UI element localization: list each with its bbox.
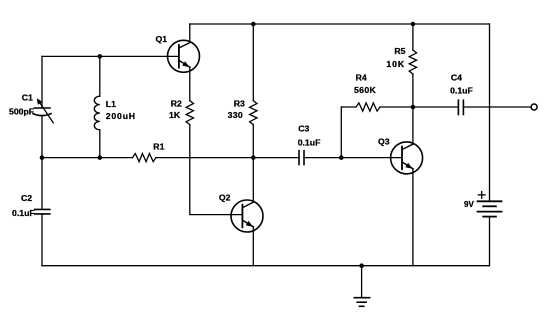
wire L1 bottom lead xyxy=(99,130,101,158)
svg-text:560K: 560K xyxy=(354,85,377,95)
transistor Q1 xyxy=(168,40,200,72)
svg-text:Q3: Q3 xyxy=(378,137,390,147)
svg-text:1K: 1K xyxy=(169,110,181,120)
inductor L1 200uH xyxy=(94,96,100,130)
capacitor C3 0.1uF xyxy=(299,151,304,165)
wire right rail upper (to battery +) xyxy=(489,24,491,201)
capacitor C2 0.1uF xyxy=(35,209,50,214)
wire C4 to output terminal (crossover right rail) xyxy=(463,106,531,108)
wire R3 top lead xyxy=(252,24,254,101)
junction node ground xyxy=(359,263,364,268)
svg-text:330: 330 xyxy=(228,110,243,120)
wire R4 right lead xyxy=(380,106,413,108)
wire L1 top lead xyxy=(99,56,101,96)
transistor Q3 xyxy=(391,142,423,174)
svg-text:C2: C2 xyxy=(21,193,32,203)
resistor R1 xyxy=(133,154,157,162)
svg-text:L1: L1 xyxy=(106,99,116,109)
resistor R5 10K xyxy=(409,50,416,74)
wire Q2 emitter to bottom rail xyxy=(252,227,254,266)
transistor Q2 emitter arrow xyxy=(246,221,253,227)
junction node R4 branch mid row xyxy=(339,155,344,160)
svg-text:R3: R3 xyxy=(234,99,245,109)
wire R2 bottom to Q2 base (crossover at mid row) xyxy=(190,125,243,215)
wire ground stem xyxy=(361,266,363,297)
wire R4 left lead xyxy=(341,106,356,108)
svg-text:9V: 9V xyxy=(464,200,474,209)
svg-text:R2: R2 xyxy=(171,99,182,109)
svg-text:200uH: 200uH xyxy=(106,111,136,121)
svg-text:Q1: Q1 xyxy=(156,34,168,44)
junction node left rail mid row xyxy=(40,155,45,160)
capacitor C1 arrow head xyxy=(37,98,43,105)
wire mid row R1 to C3 xyxy=(156,157,299,159)
svg-text:C3: C3 xyxy=(298,123,309,133)
svg-text:R5: R5 xyxy=(394,46,405,56)
wire R4 branch vertical xyxy=(340,107,342,158)
wire top rail xyxy=(190,23,490,25)
junction node L1 top xyxy=(98,54,103,59)
junction node R5 bottom / C4 xyxy=(411,105,416,110)
wire left rail lower (C2 to bottom rail) xyxy=(41,214,43,266)
resistor R3 330 xyxy=(250,101,257,125)
wire left rail middle (C1 to mid row) xyxy=(41,116,43,210)
transistor Q3 emitter arrow xyxy=(405,163,412,169)
svg-text:C4: C4 xyxy=(451,73,462,83)
svg-text:0.1uF: 0.1uF xyxy=(450,86,473,96)
wire Q1 base row xyxy=(42,55,179,57)
wire mid row C3 to Q3 base xyxy=(304,157,402,159)
capacitor C1 arrow xyxy=(40,102,54,123)
wire Q1 emitter to R2 xyxy=(189,67,191,100)
resistor R2 1K xyxy=(186,101,193,125)
capacitor C1 500pF (variable) xyxy=(33,108,51,116)
wire Q3 emitter to bottom rail xyxy=(412,169,414,266)
svg-text:0.1uF: 0.1uF xyxy=(298,137,321,147)
resistor R4 560K xyxy=(356,103,380,111)
junction node L1 bottom xyxy=(98,155,103,160)
transistor Q1 emitter arrow xyxy=(182,61,189,67)
transistor Q2 xyxy=(231,200,263,232)
junction node R3 top rail xyxy=(251,22,256,27)
capacitor C4 0.1uF xyxy=(458,100,463,114)
battery 9V plates xyxy=(478,201,502,216)
junction node R5 top rail xyxy=(411,22,416,27)
wire bottom rail xyxy=(42,265,490,267)
wire C4 left lead xyxy=(413,106,459,108)
wire right rail lower (battery - to bottom) xyxy=(489,217,491,266)
wire Q2 collector to mid row xyxy=(252,158,254,203)
svg-text:10K: 10K xyxy=(386,59,405,69)
output terminal xyxy=(531,104,537,110)
svg-text:500pF: 500pF xyxy=(9,107,34,117)
wire R3 bottom to mid row xyxy=(252,125,254,158)
wire R5 top lead xyxy=(412,24,414,50)
svg-text:Q2: Q2 xyxy=(219,192,231,202)
battery plus sign xyxy=(478,192,485,199)
svg-text:R1: R1 xyxy=(153,141,164,151)
wire R5 bottom to Q3 collector xyxy=(412,74,414,144)
svg-text:C1: C1 xyxy=(22,92,33,102)
wire Q1 collector to top rail xyxy=(189,24,191,42)
wire left rail upper (node A to C1) xyxy=(41,56,43,108)
junction node Q2 collector mid row xyxy=(251,155,256,160)
wire mid row left (to R1) xyxy=(42,157,133,159)
svg-text:0.1uF: 0.1uF xyxy=(12,208,35,218)
ground symbol xyxy=(354,298,369,307)
svg-text:R4: R4 xyxy=(356,72,367,82)
